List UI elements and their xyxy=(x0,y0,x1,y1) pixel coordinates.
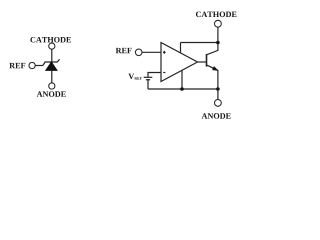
wire op-amp negative supply stub xyxy=(181,70,183,89)
plus sign (+ input) xyxy=(163,51,166,54)
op-amp U1 triangle xyxy=(161,43,198,82)
wire op-amp positive supply stub xyxy=(180,43,182,54)
Vref source battery long plate xyxy=(144,76,153,78)
junction dot (op-amp to anode rail) xyxy=(180,87,184,91)
label REF (left symbol) xyxy=(9,63,25,68)
cathode terminal (left symbol) xyxy=(49,43,55,49)
transistor Q1 emitter arrowhead xyxy=(212,66,218,70)
wire cathode lead (left symbol) xyxy=(51,49,53,62)
label REF (right) xyxy=(116,48,132,53)
label CATHODE (left symbol) xyxy=(30,37,71,43)
junction dot (emitter to anode rail) xyxy=(216,87,220,91)
diode triangle (left symbol, filled) xyxy=(46,62,57,70)
wire Vref source to anode rail xyxy=(147,80,149,89)
wire anode rail xyxy=(148,88,218,90)
wire cathode rail xyxy=(181,42,218,44)
transistor Q1 emitter xyxy=(207,65,218,89)
REF terminal (right) xyxy=(135,49,142,56)
label VREF xyxy=(128,74,141,80)
wire REF lead (left symbol) xyxy=(35,65,43,67)
junction dot (collector to cathode rail) xyxy=(216,41,220,45)
wire REF to op-amp + input xyxy=(142,51,161,53)
anode terminal (left symbol) xyxy=(49,83,55,89)
wire - input to Vref source xyxy=(148,73,161,77)
zener cathode bar with bent ends xyxy=(43,59,60,65)
anode terminal (right) xyxy=(215,100,222,107)
wire op-amp output to base xyxy=(198,61,207,63)
label ANODE (right) xyxy=(202,113,231,119)
transistor Q1 collector xyxy=(207,43,218,55)
minus sign (- input) xyxy=(163,72,165,74)
Vref source battery short plate xyxy=(146,79,150,81)
cathode terminal (right) xyxy=(215,20,222,27)
transistor Q1 base bar xyxy=(206,54,208,67)
wire anode lead (right) xyxy=(217,89,219,99)
label ANODE (left symbol) xyxy=(37,91,66,97)
label CATHODE (right) xyxy=(196,12,237,18)
wire cathode lead (right) xyxy=(217,27,219,42)
REF terminal (left symbol) xyxy=(29,62,35,68)
wire anode lead (left symbol) xyxy=(51,70,53,83)
